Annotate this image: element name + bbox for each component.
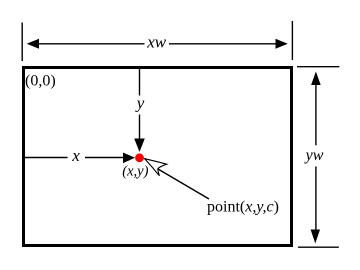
svg-text:(x,y): (x,y) xyxy=(122,163,148,179)
svg-text:point(x,y,c): point(x,y,c) xyxy=(207,199,279,216)
svg-text:x: x xyxy=(71,146,80,165)
svg-text:(0,0): (0,0) xyxy=(25,73,56,90)
svg-text:y: y xyxy=(135,94,145,113)
svg-text:yw: yw xyxy=(304,147,324,164)
svg-text:xw: xw xyxy=(146,33,167,52)
